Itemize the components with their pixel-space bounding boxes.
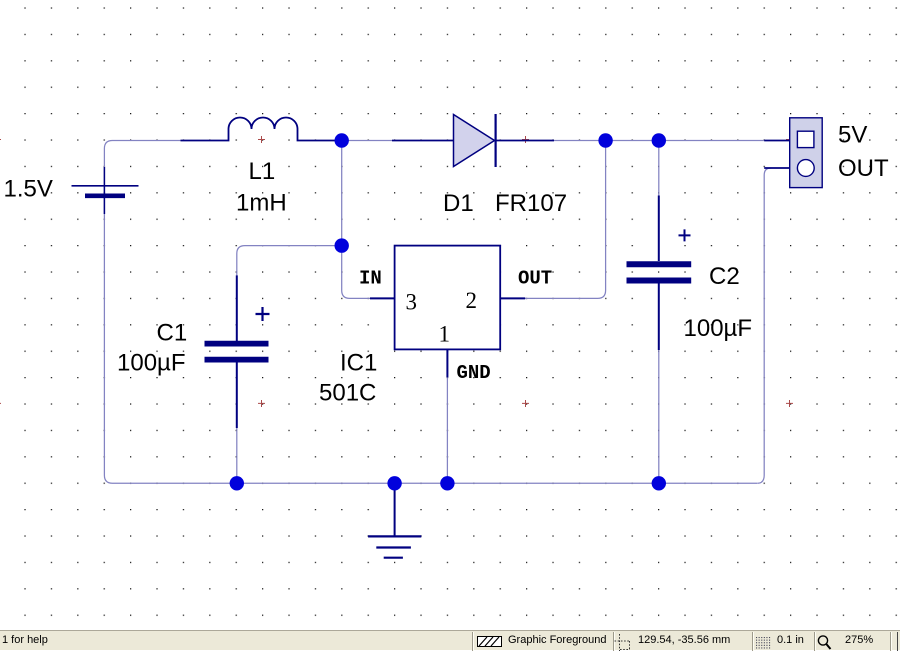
svg-text:501C: 501C — [319, 380, 376, 407]
svg-text:IC1: IC1 — [340, 349, 377, 376]
wire connector to bottom rail — [757, 168, 771, 483]
capacitor C2 — [627, 196, 692, 351]
svg-text:C2: C2 — [709, 263, 740, 290]
svg-text:OUT: OUT — [838, 155, 889, 182]
svg-text:5V: 5V — [838, 122, 867, 149]
wire node B to capacitor C1 — [237, 246, 342, 276]
wire IC1 OUT pin to top rail — [525, 141, 605, 299]
wire node B to IC1 IN pin — [342, 246, 371, 299]
junction bottom rail at ground — [387, 476, 401, 490]
wire node A to diode D1 — [342, 140, 392, 142]
pin 1 GND lead — [446, 349, 448, 377]
diode D1 — [392, 114, 554, 167]
pin 2 OUT lead — [500, 297, 525, 299]
junction bottom rail at GND pin — [440, 476, 454, 490]
wire IC1 GND pin to bottom rail — [446, 377, 448, 483]
junction node B — [335, 238, 349, 252]
svg-text:3: 3 — [406, 290, 418, 315]
svg-text:L1: L1 — [249, 158, 276, 185]
svg-text:1.5V: 1.5V — [4, 175, 53, 202]
IC U1 box — [370, 246, 525, 378]
junction top rail at C2 — [652, 133, 666, 147]
svg-text:C1: C1 — [157, 319, 188, 346]
junction node A — [335, 133, 349, 147]
svg-text:100µF: 100µF — [684, 315, 753, 342]
pin 3 IN lead — [370, 297, 395, 299]
svg-text:FR107: FR107 — [495, 190, 567, 217]
capacitor C1 — [205, 275, 270, 428]
wire battery top rail and left/bottom rail — [104, 141, 757, 484]
wire capacitor C1 to bottom rail — [236, 428, 238, 483]
svg-text:D1: D1 — [443, 190, 474, 217]
ground — [368, 483, 421, 557]
svg-text:1: 1 — [439, 321, 451, 346]
battery BT1 1.5V — [72, 167, 139, 214]
connector J1 — [764, 118, 822, 188]
wire node A down to node B — [341, 141, 343, 246]
junction top rail at OUT return — [598, 133, 612, 147]
junction bottom rail at C2 — [652, 476, 666, 490]
inductor L1 — [181, 118, 342, 141]
svg-text:GND: GND — [457, 362, 491, 384]
svg-text:OUT: OUT — [518, 268, 552, 290]
svg-text:2: 2 — [466, 288, 478, 313]
junction bottom rail at C1 — [230, 476, 244, 490]
svg-text:100µF: 100µF — [117, 350, 186, 377]
svg-text:1mH: 1mH — [236, 190, 287, 217]
svg-text:IN: IN — [359, 268, 382, 290]
wire diode D1 to connector — [554, 140, 764, 142]
wire capacitor C2 to bottom rail — [658, 350, 660, 483]
wire top rail to capacitor C2 — [658, 141, 660, 196]
